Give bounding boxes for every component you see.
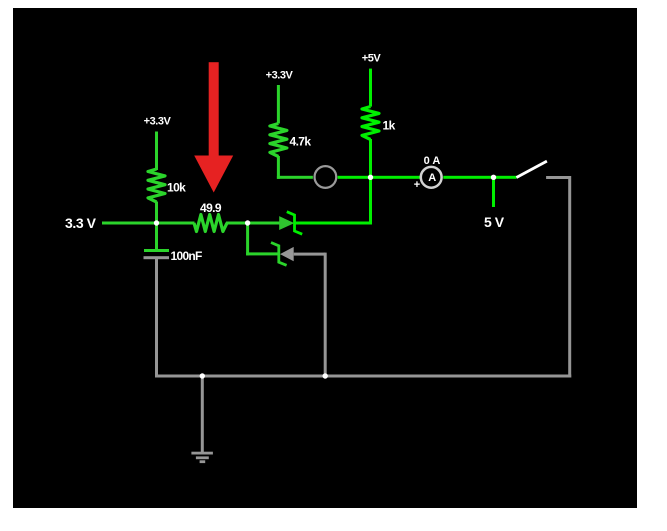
wire node C to ammeter xyxy=(372,176,421,179)
svg-text:+3.3V: +3.3V xyxy=(266,69,294,81)
resistor R2 49.9 xyxy=(158,201,248,232)
svg-text:0 A: 0 A xyxy=(424,155,441,167)
switch SW1 (open) xyxy=(516,161,569,179)
capacitor C1 100nF xyxy=(144,249,203,376)
node D junction dot xyxy=(491,175,496,180)
wire R3 to LED xyxy=(277,176,313,179)
wire node B down xyxy=(246,223,249,255)
svg-text:+3.3V: +3.3V xyxy=(144,116,172,128)
node E junction dot (ground) xyxy=(200,373,205,378)
svg-text:100nF: 100nF xyxy=(171,249,203,263)
svg-text:4.7k: 4.7k xyxy=(290,134,312,148)
wire +3.3V to R3 xyxy=(277,85,280,124)
wire +5V to R4 xyxy=(369,69,372,107)
annotation red arrow xyxy=(194,62,233,192)
node A junction dot xyxy=(154,220,159,225)
wire node B to zener D2 xyxy=(246,252,278,255)
svg-text:+: + xyxy=(414,179,420,191)
wire D1 cathode up to node C xyxy=(369,177,372,224)
svg-text:+5V: +5V xyxy=(362,52,382,64)
wire LED to node C xyxy=(338,176,371,179)
node B junction dot xyxy=(245,220,250,225)
node C junction dot xyxy=(368,175,373,180)
wire ammeter to node D xyxy=(443,176,493,179)
svg-text:1k: 1k xyxy=(383,118,396,132)
wire +3.3V to R1 xyxy=(155,132,158,171)
svg-text:5 V: 5 V xyxy=(484,214,505,230)
node 5V stub xyxy=(492,177,495,207)
wire D2 anode down xyxy=(324,253,327,376)
node F junction dot xyxy=(323,373,328,378)
svg-text:A: A xyxy=(428,172,436,184)
LED L1 (off) xyxy=(315,166,337,188)
zener diode D2 (gray body, pointing left) xyxy=(271,243,325,266)
wire 3.3V input xyxy=(102,222,157,225)
resistor R3 4.7k xyxy=(270,124,311,179)
ammeter M1 xyxy=(414,155,442,191)
ground G1 xyxy=(191,376,213,463)
svg-text:49.9: 49.9 xyxy=(200,201,222,215)
resistor R4 1k xyxy=(362,107,396,178)
wire bottom rail xyxy=(155,375,571,378)
zener diode D1 (green, pointing right) xyxy=(249,212,372,235)
svg-text:3.3 V: 3.3 V xyxy=(65,215,97,231)
wire junction A to capacitor xyxy=(155,223,158,249)
svg-text:10k: 10k xyxy=(167,180,186,194)
resistor R1 10k xyxy=(148,169,186,223)
wire node D to switch xyxy=(494,176,517,179)
wire right side down xyxy=(568,176,571,378)
